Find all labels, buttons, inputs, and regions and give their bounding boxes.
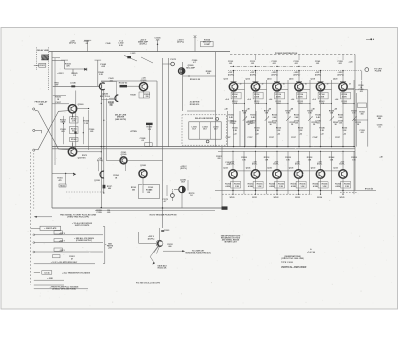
wire v106 center	[105, 98, 107, 160]
wire collector link2 2	[281, 82, 296, 84]
label col left 4	[311, 107, 314, 110]
label divider 1a	[250, 115, 255, 119]
svg-text:+ ALL TRANSISTOR VOLTAGES: + ALL TRANSISTOR VOLTAGES	[62, 271, 91, 274]
label Q1210 left	[148, 236, 155, 240]
label divider 0a	[228, 115, 233, 119]
row3 component box	[54, 248, 62, 251]
label Q1080	[186, 65, 195, 69]
resistor R1089 hatched	[146, 123, 153, 125]
wire column feed Q128	[298, 151, 300, 170]
junction dot row 0	[232, 151, 233, 195]
svg-text:SUPPLY POINTS: SUPPLY POINTS	[75, 225, 90, 227]
label R bottom 0b	[234, 184, 241, 188]
wire v245	[244, 111, 246, 147]
label note block right	[221, 234, 241, 243]
wire h64 link	[163, 63, 171, 65]
svg-text:+125: +125	[349, 62, 353, 64]
transistor Q110	[229, 83, 237, 91]
label +100V	[177, 39, 184, 43]
svg-text:1.5K: 1.5K	[345, 186, 350, 188]
label Q1180	[180, 179, 186, 183]
label Q112 top	[250, 72, 257, 76]
label R1097	[248, 121, 254, 125]
junction dot emitter 2	[276, 89, 277, 90]
svg-text:.02: .02	[85, 43, 88, 45]
svg-text:(DCPL): (DCPL)	[148, 238, 155, 240]
resistor chain box 3	[70, 138, 79, 142]
resistor box below Q122	[231, 181, 241, 188]
svg-text:L1040: L1040	[70, 82, 76, 85]
label Q124 name	[246, 166, 251, 169]
svg-text:.001: .001	[316, 63, 320, 65]
label Q128 top	[295, 161, 301, 165]
svg-text:.001: .001	[339, 123, 343, 125]
svg-text:+22: +22	[255, 134, 258, 136]
svg-text:47: 47	[71, 257, 73, 260]
label pot right 0	[246, 122, 251, 126]
label driver cell 2	[202, 126, 207, 130]
label C1021	[84, 41, 89, 45]
wire mid link 0	[234, 103, 246, 104]
label lower divider2 2	[277, 134, 280, 136]
wire v97	[95, 60, 102, 86]
wire table row 1	[34, 234, 103, 236]
label corner b	[225, 162, 230, 166]
svg-text:4.99K: 4.99K	[269, 185, 275, 188]
junction dot feed 0	[233, 70, 234, 71]
wire Q128 emitter	[298, 178, 300, 194]
label col top 4	[315, 60, 320, 65]
wire table row 3	[34, 251, 103, 253]
wire row link 2	[281, 170, 296, 172]
svg-text:W120: W120	[230, 197, 235, 199]
wire column feed Q110	[233, 71, 235, 84]
label top extra2	[106, 42, 111, 45]
svg-text:R1047 62: R1047 62	[119, 81, 127, 84]
label driver cell 1	[192, 126, 197, 130]
svg-text:4.99K: 4.99K	[232, 95, 238, 98]
transistor Q128	[294, 170, 302, 178]
label col left2 1	[247, 98, 250, 101]
label C1088	[140, 138, 147, 142]
wire inter vertical 2	[287, 80, 289, 147]
svg-text:+ 12.5 V +350 MTR WFM ONLY: + 12.5 V +350 MTR WFM ONLY	[51, 262, 78, 264]
junction dot emitter 3	[298, 89, 299, 90]
resistor R1155 hatched	[103, 185, 106, 189]
wire inter vertical bottom 0	[243, 151, 245, 194]
label Q110 top	[228, 72, 235, 76]
wire q1210 diag	[150, 247, 157, 262]
svg-text:+9.4: +9.4	[225, 98, 228, 101]
label col left 1	[246, 107, 249, 110]
label row 3	[59, 250, 65, 252]
label lower divider 1	[254, 128, 259, 132]
label q1160 emitter2	[148, 187, 153, 191]
label below bus left a	[96, 210, 101, 214]
svg-text:Q132: Q132	[333, 167, 338, 169]
label R emitter2 1	[254, 101, 260, 105]
svg-text:C1159: C1159	[96, 212, 101, 214]
wire collector link 0	[237, 88, 244, 90]
label col left2 2	[269, 98, 272, 101]
junction dot bus 2	[276, 146, 288, 147]
resistor box below Q124	[253, 181, 263, 188]
wire collector link2 4	[324, 82, 339, 84]
label low left 0	[225, 137, 230, 139]
svg-text:.005: .005	[149, 189, 153, 191]
wire r1047 right	[127, 85, 140, 87]
wire bottom bus left	[52, 207, 222, 209]
label row 2	[59, 241, 66, 243]
svg-text:+48: +48	[379, 155, 382, 158]
junction dot emitter 1	[255, 89, 256, 90]
wire collector link 4	[324, 88, 331, 90]
label atten network	[190, 101, 200, 106]
svg-text:C1157: C1157	[335, 137, 340, 139]
label lower divider2 1	[255, 134, 258, 136]
label Q132 top	[339, 161, 345, 165]
label right block	[359, 85, 364, 93]
wire base bar 4	[318, 80, 324, 82]
dashed segment right	[340, 191, 358, 193]
label below bus 2	[274, 197, 279, 199]
transistor Q1210	[156, 240, 163, 247]
output stage shield box	[139, 185, 160, 199]
wire collector link 3	[303, 88, 310, 90]
wire inter vertical 3	[309, 80, 311, 147]
wire column feed Q130	[320, 151, 322, 170]
label inter bottom 4	[329, 156, 334, 161]
label q right 5	[349, 83, 351, 86]
svg-text:(DCPL): (DCPL)	[97, 160, 104, 162]
svg-text:.001: .001	[360, 132, 364, 134]
wire h165 stub	[125, 164, 127, 171]
wire inter vertical bottom 2	[287, 151, 289, 194]
svg-text:R1170 TRIGGER PICKOFF NN: R1170 TRIGGER PICKOFF NN	[150, 214, 177, 216]
svg-text:VERTICAL AMPLIFIER: VERTICAL AMPLIFIER	[281, 266, 307, 269]
svg-text:C1040: C1040	[106, 42, 111, 45]
wire mid link 1	[256, 103, 268, 104]
label right margin b	[377, 124, 384, 128]
label low left 3	[291, 137, 296, 139]
row1 component box	[54, 231, 62, 234]
label R emitter2 2	[276, 101, 282, 105]
wire collector link2 1	[259, 82, 274, 84]
label R1096	[231, 121, 237, 125]
row2 component box	[54, 239, 62, 242]
label top center extra1	[192, 60, 197, 64]
svg-text:.02: .02	[141, 140, 144, 142]
wire v367	[367, 90, 369, 147]
svg-text:.001: .001	[229, 123, 233, 125]
label atten 2	[130, 130, 137, 133]
wire right link h88	[347, 88, 355, 90]
resistor R1152 box	[59, 184, 66, 187]
label lower divider 3	[298, 128, 303, 132]
svg-text:(CIRCUIT NO 1000-1299): (CIRCUIT NO 1000-1299)	[281, 258, 304, 260]
wire column feed Q116	[298, 71, 300, 84]
dashed shield line 2	[33, 153, 35, 210]
label lower divider2 3	[299, 134, 302, 136]
label R emitter 4	[319, 93, 325, 98]
svg-text:C1117: C1117	[248, 137, 253, 139]
label delay line	[37, 49, 49, 52]
svg-text:4.7: 4.7	[164, 200, 167, 203]
wire Q112 emitter	[255, 91, 257, 147]
wire h173	[52, 172, 66, 174]
base bias dotted line	[228, 70, 362, 72]
svg-text:R1152: R1152	[60, 185, 65, 187]
wire v157	[156, 81, 158, 147]
label +225V main amp	[138, 39, 149, 45]
label L1040	[70, 82, 76, 85]
svg-text:(SEE NOTE): (SEE NOTE)	[115, 119, 126, 121]
label inter bottom 5	[351, 157, 356, 161]
svg-text:(DCPL): (DCPL)	[250, 74, 257, 76]
label col left 5	[334, 107, 337, 110]
wire v240	[239, 111, 241, 147]
wire v65 drop	[65, 173, 67, 184]
svg-text:220: 220	[217, 158, 220, 160]
label Q1070	[78, 157, 84, 159]
wire v64	[64, 60, 66, 69]
svg-text:LINE: LINE	[39, 104, 44, 106]
input terminal upper	[33, 108, 35, 110]
wire bottom right bus	[215, 190, 376, 192]
label inter bottom 0	[241, 157, 246, 161]
svg-text:470: 470	[58, 179, 61, 182]
wire table row 7	[34, 284, 64, 286]
wire q1050 drop	[143, 91, 145, 98]
wire diag top center	[141, 57, 153, 63]
wire shield to termination	[34, 64, 39, 66]
label q right 4	[327, 83, 329, 86]
svg-text:(DCPL): (DCPL)	[69, 43, 76, 45]
label R emitter 0	[232, 93, 238, 98]
termination resistor box	[39, 63, 46, 67]
svg-text:DELAY LINE: DELAY LINE	[37, 49, 49, 52]
svg-text:1.5K: 1.5K	[322, 186, 327, 188]
svg-text:Q112: Q112	[245, 79, 249, 81]
column stub b	[298, 55, 300, 61]
transistor Q1080	[178, 68, 184, 74]
svg-text:Q120: Q120	[333, 79, 338, 81]
label Q126 name	[267, 167, 272, 169]
svg-text:PLATE: PLATE	[375, 70, 382, 73]
driver terminal circle bottom	[206, 140, 209, 143]
power distribution dashed line	[230, 54, 355, 56]
label row 5 note	[62, 271, 91, 274]
label top extra1	[119, 41, 124, 47]
svg-text:.005: .005	[107, 212, 111, 214]
label divider 5a	[338, 115, 343, 119]
svg-text:W122: W122	[274, 197, 279, 199]
svg-text:3.3K: 3.3K	[320, 130, 325, 132]
label chain right b	[89, 129, 94, 133]
label right edge low	[379, 155, 382, 158]
label col left 3	[290, 107, 293, 110]
wire column feed Q132	[342, 151, 344, 170]
dashed link lower left	[66, 191, 105, 193]
label right top	[349, 62, 353, 64]
label gain adj	[157, 264, 167, 269]
wire q1180 left stub	[174, 189, 179, 191]
label col left2 4	[312, 98, 315, 101]
wire mid link 4	[321, 103, 333, 104]
title type	[281, 262, 294, 264]
wire collector link 5	[347, 88, 354, 90]
svg-text:680: 680	[132, 189, 135, 191]
wire v162	[162, 58, 164, 228]
wire q1060 emitter down	[72, 112, 74, 116]
wire bottom bus offset	[95, 210, 215, 212]
wire stub y95	[53, 95, 66, 97]
svg-text:910: 910	[207, 73, 210, 75]
junction dot row 2	[276, 151, 277, 195]
svg-text:.001: .001	[338, 63, 342, 65]
label C1205	[164, 230, 169, 232]
wire base bar 3	[296, 80, 302, 82]
label Q130 top	[317, 161, 323, 165]
wire right box edge	[215, 52, 217, 147]
label R emitter2 3	[298, 101, 304, 105]
label inter 2	[285, 110, 290, 114]
svg-text:POWER DISTRIBUTION: POWER DISTRIBUTION	[275, 53, 298, 55]
wire v356 lower	[356, 93, 358, 147]
label R1045	[108, 102, 115, 107]
svg-text:TO LOWER CRT: TO LOWER CRT	[192, 250, 204, 252]
svg-text:(POWER SUPPLY): (POWER SUPPLY)	[76, 240, 92, 242]
wire inter vertical 5	[353, 80, 355, 147]
resistor box below Q132	[341, 181, 351, 188]
dashed delay side right	[48, 47, 50, 90]
label Q118 left	[310, 79, 314, 81]
capacitor C1175 circle	[171, 194, 175, 198]
caption figure	[136, 283, 161, 285]
wire Q132 emitter	[342, 178, 344, 194]
pot wiper blob	[74, 131, 76, 133]
driver cell divider 1	[199, 122, 201, 139]
svg-text:(DCPL): (DCPL)	[228, 74, 235, 76]
svg-text:1.5K: 1.5K	[279, 186, 284, 188]
row pin circle 1	[33, 234, 35, 236]
label inter 0	[242, 110, 247, 114]
svg-text:(DCPL): (DCPL)	[293, 74, 300, 76]
transistor Q1040	[99, 83, 104, 90]
label divider 2a	[272, 115, 277, 119]
label col top 5	[337, 61, 342, 65]
svg-text:1 K: 1 K	[73, 75, 77, 77]
resistor box below Q118	[318, 92, 328, 99]
label low left 2	[269, 137, 274, 139]
label v106 a	[108, 101, 113, 106]
wire row link 4	[324, 170, 339, 172]
svg-text:W125: W125	[340, 197, 345, 199]
wire chain outer rail	[88, 110, 90, 150]
pot arrow 0	[243, 116, 247, 121]
svg-text:R1066: R1066	[71, 139, 76, 141]
label +225V left	[57, 73, 64, 75]
diode blob on diagonal	[127, 56, 131, 58]
svg-text:.005: .005	[90, 131, 94, 133]
svg-text:2.7K: 2.7K	[72, 121, 77, 123]
transistor Q130	[316, 170, 324, 178]
svg-text:TYPE 1 5030: TYPE 1 5030	[281, 262, 294, 264]
label R bottom 5b	[344, 184, 351, 188]
title rev	[307, 251, 315, 254]
label driver title	[195, 117, 214, 120]
label R1021	[65, 63, 72, 67]
wire v361	[361, 71, 363, 90]
label divider 2b	[272, 120, 277, 124]
svg-text:330: 330	[145, 96, 148, 98]
wire v182	[182, 62, 184, 111]
svg-text:Q1050: Q1050	[141, 80, 147, 82]
small transistor blob	[65, 173, 76, 176]
label R bottom 2b	[278, 184, 285, 188]
svg-text:Q126: Q126	[267, 167, 272, 169]
label Q114 left	[267, 78, 272, 81]
svg-text:+48: +48	[334, 107, 337, 110]
label Q124 top	[252, 161, 258, 165]
wire inter vertical 0	[244, 80, 246, 147]
label R1155	[107, 186, 112, 190]
wire diag left segment	[124, 55, 137, 61]
label right edge d	[359, 130, 364, 134]
driver inner box	[189, 122, 221, 139]
wire row link 0	[237, 170, 252, 172]
label row 6	[47, 278, 53, 280]
wire v167 stub	[166, 185, 168, 196]
svg-text:.001: .001	[251, 123, 255, 125]
svg-text:(SHIELD, WFM AND TUBE): (SHIELD, WFM AND TUBE)	[52, 288, 76, 291]
row pin circle 3	[33, 251, 35, 253]
svg-text:+9.4: +9.4	[247, 98, 250, 101]
label left lower b	[55, 102, 60, 104]
wire q1070 right stub	[77, 151, 102, 152]
wire plus drop	[194, 35, 197, 51]
label C1025	[155, 38, 162, 42]
svg-text:330: 330	[109, 105, 112, 107]
label left lower a	[55, 97, 60, 101]
label trig note	[60, 213, 97, 218]
wire +225 feed	[52, 59, 68, 61]
junction dot bus 0	[233, 146, 245, 147]
resistor R1047 hatched	[120, 85, 128, 88]
row pin circle 2	[33, 242, 35, 244]
svg-text:680: 680	[378, 118, 381, 120]
label driver cell 3	[213, 126, 218, 130]
svg-text:3.3K: 3.3K	[255, 130, 260, 132]
label gain network	[60, 119, 66, 123]
label col left2 3	[291, 98, 294, 101]
svg-text:C1205: C1205	[164, 230, 169, 232]
capacitor tick C1205	[161, 231, 164, 232]
label output stage	[146, 189, 151, 194]
wire column feed Q126	[276, 151, 278, 170]
svg-text:FIG NN OSCILLOSCOPE: FIG NN OSCILLOSCOPE	[136, 283, 161, 285]
svg-text:COMP: COMP	[204, 44, 211, 46]
label C1042	[100, 63, 107, 68]
wire q1040 top link	[101, 80, 157, 82]
label divider 3a	[294, 115, 299, 119]
label from delay line	[35, 101, 48, 106]
transistor Q124	[251, 170, 259, 178]
right edge box	[358, 103, 367, 108]
pot arrow 5	[352, 116, 356, 121]
title rev mark	[310, 248, 312, 251]
wire mid terminal stub	[35, 130, 42, 133]
